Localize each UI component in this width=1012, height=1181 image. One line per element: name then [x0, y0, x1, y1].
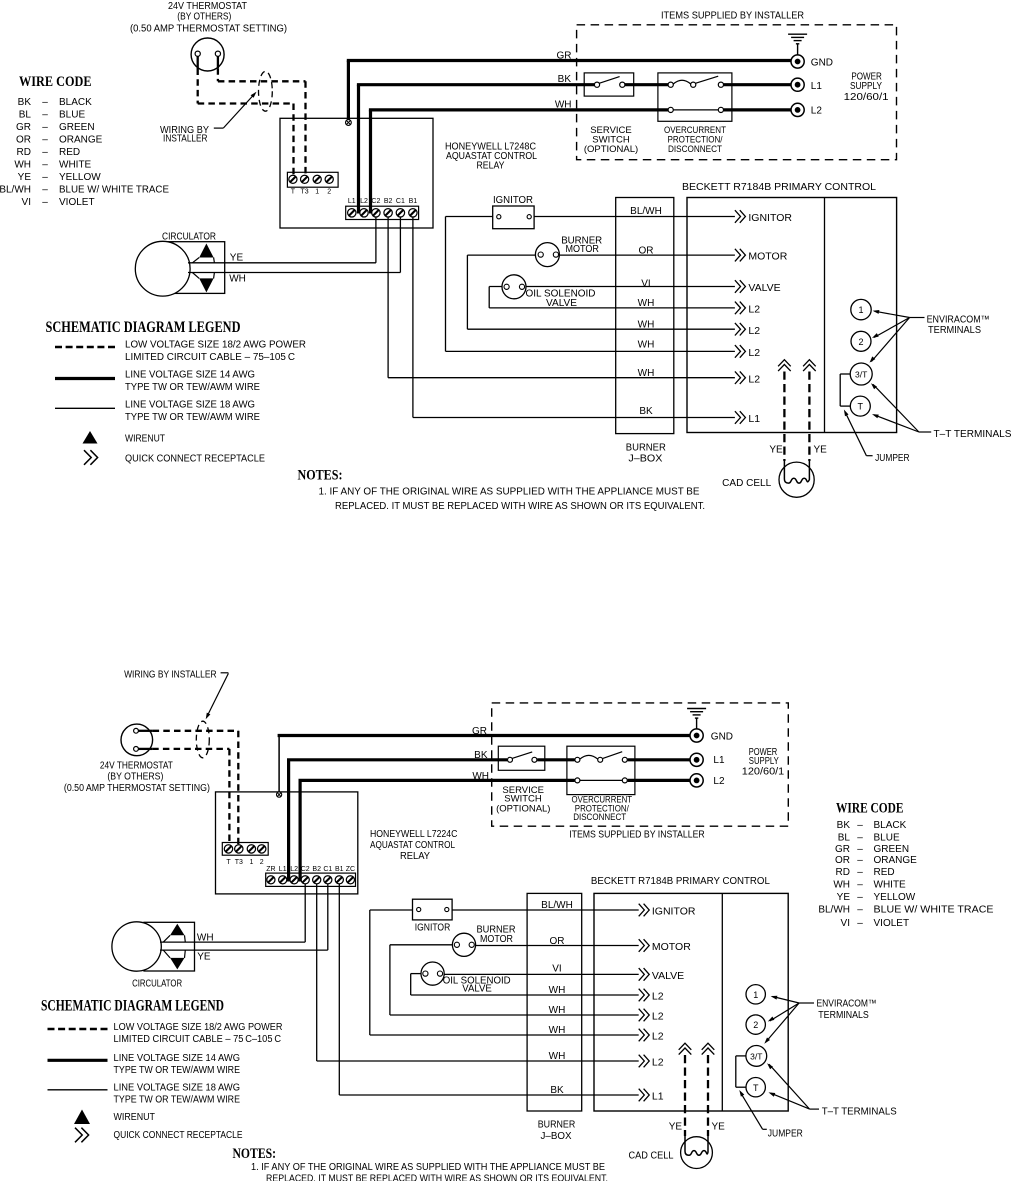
- svg-text:LINE VOLTAGE SIZE 18 AWG: LINE VOLTAGE SIZE 18 AWG: [114, 1082, 241, 1093]
- wire YE circulator to C2 (top): [188, 262, 376, 264]
- svg-text:–: –: [857, 820, 863, 831]
- terminal strip ZR..ZC (bottom): [266, 873, 356, 886]
- svg-text:2: 2: [260, 859, 264, 866]
- legend thick line sample (top): [55, 377, 115, 380]
- svg-text:RED: RED: [59, 147, 80, 158]
- svg-text:L1: L1: [279, 866, 287, 873]
- svg-text:1: 1: [858, 305, 863, 315]
- wire motor left to L2 receptacle (bottom): [390, 944, 457, 946]
- svg-text:ORANGE: ORANGE: [59, 135, 103, 146]
- wire C2 to circulator YE (top): [375, 217, 377, 263]
- aquastat relay box U1 (top): [280, 118, 433, 228]
- screw terminal 1 (top): [313, 175, 321, 183]
- svg-text:GND: GND: [711, 731, 733, 742]
- svg-text:JUMPER: JUMPER: [768, 1128, 803, 1139]
- svg-text:–: –: [857, 867, 863, 878]
- burner motor M1 (top): [535, 243, 559, 267]
- svg-text:YE: YE: [837, 892, 851, 903]
- svg-text:MOTOR: MOTOR: [480, 934, 513, 945]
- svg-text:VI: VI: [841, 918, 850, 929]
- wire GR ground (bottom): [278, 736, 280, 792]
- svg-text:BLACK: BLACK: [874, 820, 907, 831]
- svg-text:L2: L2: [713, 776, 725, 787]
- cad cell dashed wire YE left (bottom): [684, 1055, 686, 1136]
- quick-connect receptacle L2#5 (bottom): [639, 1009, 650, 1022]
- svg-text:GR: GR: [472, 726, 487, 737]
- svg-text:IGNITOR: IGNITOR: [493, 195, 533, 206]
- cable loop symbol (top): [259, 71, 273, 111]
- quick-connect receptacle L2#4 (top): [735, 302, 746, 315]
- jumper bracket (top): [840, 373, 850, 375]
- wire thermostat-T3 (dashed, top): [217, 56, 219, 68]
- terminal strip T T3 1 2 (top): [287, 172, 338, 187]
- legend thin line sample (bottom): [48, 1089, 108, 1091]
- circulator junction box (top): [160, 242, 225, 294]
- svg-text:MOTOR: MOTOR: [748, 251, 787, 263]
- cad cell dashed wire YE right (bottom): [707, 1055, 709, 1136]
- leader line to jumper (bottom): [763, 1128, 767, 1130]
- svg-text:QUICK CONNECT RECEPTACLE: QUICK CONNECT RECEPTACLE: [125, 453, 265, 464]
- wire B1 to L1 receptacle (top): [412, 217, 414, 418]
- svg-text:WIRING BY INSTALLER: WIRING BY INSTALLER: [124, 669, 217, 680]
- svg-text:ITEMS SUPPLIED BY INSTALLER: ITEMS SUPPLIED BY INSTALLER: [661, 11, 804, 22]
- overcurrent protection/disconnect CB2 (bottom): [567, 746, 635, 794]
- svg-text:LIMITED CIRCUIT CABLE – 75–105: LIMITED CIRCUIT CABLE – 75–105 C: [125, 352, 295, 363]
- svg-text:2: 2: [327, 188, 331, 195]
- svg-text:YELLOW: YELLOW: [874, 892, 916, 903]
- wirenut lower (bottom): [170, 958, 184, 970]
- svg-text:ZC: ZC: [346, 866, 355, 873]
- wire B2 to L2 receptacle (bottom): [316, 884, 318, 1061]
- svg-text:WH: WH: [197, 932, 214, 943]
- terminal T (bottom): [746, 1078, 765, 1097]
- svg-text:BL/WH: BL/WH: [818, 905, 850, 916]
- beckett internal divider (top): [824, 198, 826, 433]
- burner motor M2 (bottom): [452, 933, 475, 956]
- svg-text:–: –: [42, 135, 48, 146]
- quick-connect receptacle IGNITOR#1 (top): [735, 210, 746, 223]
- wire WH line-voltage L2 (top): [369, 110, 372, 214]
- svg-text:SUPPLY: SUPPLY: [850, 81, 882, 92]
- wire WH line-voltage L2 (bottom): [299, 780, 302, 881]
- svg-text:L1: L1: [713, 755, 725, 766]
- svg-text:MOTOR: MOTOR: [652, 941, 691, 953]
- svg-text:RELAY: RELAY: [400, 851, 430, 862]
- terminal GND (bottom): [690, 729, 733, 742]
- wire ignitor left to L2 receptacle (top): [446, 216, 499, 218]
- svg-text:C2: C2: [371, 198, 380, 205]
- wire YE circulator to C1 (bottom): [160, 949, 328, 951]
- aquastat relay box U3 (bottom): [216, 792, 358, 894]
- svg-text:(0.50 AMP THERMOSTAT SETTING): (0.50 AMP THERMOSTAT SETTING): [130, 24, 287, 35]
- svg-text:2: 2: [858, 337, 863, 347]
- svg-text:RED: RED: [874, 867, 895, 878]
- svg-text:(BY OTHERS): (BY OTHERS): [107, 772, 163, 783]
- svg-text:120/60/1: 120/60/1: [844, 92, 889, 103]
- svg-text:GREEN: GREEN: [874, 844, 910, 855]
- svg-text:VI: VI: [552, 963, 561, 974]
- quick-connect receptacle L2#7 (bottom): [639, 1055, 650, 1068]
- svg-text:BLUE: BLUE: [874, 833, 900, 844]
- svg-text:B1: B1: [409, 198, 418, 205]
- wire thermostat-T (dashed, top): [197, 56, 199, 68]
- svg-text:–: –: [42, 110, 48, 121]
- svg-text:BL/WH: BL/WH: [630, 206, 662, 217]
- thermostat TH1 terminal 2: [215, 51, 220, 56]
- wire ignitor left to L2 receptacle (bottom): [370, 909, 419, 911]
- svg-text:TYPE TW OR TEW/AWM WIRE: TYPE TW OR TEW/AWM WIRE: [125, 412, 260, 423]
- svg-text:TERMINALS: TERMINALS: [818, 1010, 869, 1021]
- svg-text:YE: YE: [814, 445, 828, 456]
- svg-text:WH: WH: [833, 880, 850, 891]
- burner j-box column (bottom): [527, 893, 582, 1111]
- overcurrent protection/disconnect CB1 (top): [658, 73, 732, 121]
- svg-text:1: 1: [249, 859, 253, 866]
- svg-text:L2: L2: [652, 1031, 664, 1043]
- legend dashed line sample (bottom): [48, 1028, 108, 1030]
- svg-text:YE: YE: [669, 1122, 683, 1133]
- svg-text:–: –: [857, 905, 863, 916]
- svg-text:–: –: [42, 147, 48, 158]
- svg-text:OR: OR: [835, 855, 850, 866]
- quick-connect receptacle L1#8 (top): [735, 411, 746, 424]
- svg-text:(OPTIONAL): (OPTIONAL): [584, 144, 638, 155]
- svg-text:T: T: [226, 859, 231, 866]
- oil solenoid valve V1 (top): [502, 275, 526, 299]
- quick-connect receptacle L2#4 (bottom): [639, 989, 650, 1002]
- svg-text:VIOLET: VIOLET: [59, 197, 95, 208]
- wire B1 to L1 receptacle (bottom): [338, 884, 340, 1095]
- legend thin line sample (top): [55, 407, 115, 409]
- svg-text:BLUE W/ WHITE TRACE: BLUE W/ WHITE TRACE: [59, 185, 169, 196]
- legend thick line sample (bottom): [48, 1059, 108, 1062]
- terminal GND (top): [791, 55, 833, 69]
- svg-text:BLACK: BLACK: [59, 97, 92, 108]
- svg-text:L2: L2: [748, 373, 760, 385]
- screw terminal 2 (bottom): [258, 845, 266, 853]
- leader line to jumper (top): [866, 455, 872, 457]
- svg-text:CAD CELL: CAD CELL: [722, 478, 771, 489]
- ignitor transformer box (top): [493, 206, 534, 229]
- svg-text:C2: C2: [301, 866, 310, 873]
- wire WH circulator to C1 (top): [188, 272, 400, 274]
- svg-text:CAD CELL: CAD CELL: [629, 1151, 674, 1162]
- svg-text:T–T TERMINALS: T–T TERMINALS: [822, 1106, 897, 1117]
- wire valve right to VALVE receptacle (top): [522, 286, 735, 288]
- svg-text:120/60/1: 120/60/1: [742, 767, 785, 778]
- svg-text:24V THERMOSTAT: 24V THERMOSTAT: [100, 761, 173, 772]
- quick-connect receptacle L2#6 (bottom): [639, 1029, 650, 1042]
- service switch SW2 (bottom): [498, 746, 545, 770]
- svg-text:OR: OR: [16, 135, 31, 146]
- cad cell photocell PC1 (top): [779, 462, 814, 497]
- svg-text:(0.50 AMP THERMOSTAT SETTING): (0.50 AMP THERMOSTAT SETTING): [64, 783, 210, 794]
- svg-text:REPLACED. IT MUST BE REPLACED: REPLACED. IT MUST BE REPLACED WITH WIRE …: [335, 501, 705, 512]
- svg-text:WHITE: WHITE: [59, 160, 92, 171]
- svg-text:BK: BK: [18, 97, 32, 108]
- svg-text:IGNITOR: IGNITOR: [415, 923, 451, 934]
- terminal 3/T (bottom): [746, 1046, 767, 1067]
- enviracom terminal 1 (top): [851, 299, 871, 319]
- svg-text:RD: RD: [836, 867, 850, 878]
- ground symbol (bottom): [687, 709, 706, 730]
- svg-text:GR: GR: [835, 844, 850, 855]
- svg-text:GR: GR: [16, 122, 31, 133]
- svg-text:L2: L2: [652, 991, 664, 1003]
- svg-text:NOTES:: NOTES:: [233, 1146, 277, 1162]
- thermostat TH2 terminal 1: [134, 728, 139, 733]
- svg-text:GND: GND: [811, 58, 833, 69]
- svg-text:YE: YE: [197, 952, 211, 963]
- svg-text:SUPPLY: SUPPLY: [749, 756, 779, 767]
- svg-text:24V THERMOSTAT: 24V THERMOSTAT: [168, 1, 247, 12]
- svg-text:(OPTIONAL): (OPTIONAL): [496, 803, 550, 814]
- cable loop symbol (bottom): [196, 721, 209, 758]
- wirenut upper (bottom): [170, 924, 184, 936]
- circulator junction box (bottom): [144, 922, 195, 971]
- svg-text:–: –: [857, 855, 863, 866]
- svg-text:C1: C1: [396, 198, 405, 205]
- svg-text:LOW VOLTAGE SIZE 18/2 AWG POWE: LOW VOLTAGE SIZE 18/2 AWG POWER: [114, 1022, 283, 1033]
- terminal 3/T (top): [850, 363, 872, 385]
- wirenut upper (top): [199, 244, 213, 258]
- svg-text:VALVE: VALVE: [748, 282, 780, 294]
- wire BK line-voltage L1 (bottom): [287, 760, 290, 882]
- ground symbol (top): [788, 34, 807, 55]
- svg-text:ENVIRACOM™: ENVIRACOM™: [927, 314, 990, 325]
- legend quick connect symbol (bottom): [75, 1128, 89, 1143]
- svg-text:YE: YE: [18, 172, 32, 183]
- terminal L2 (bottom): [690, 774, 725, 787]
- svg-text:YE: YE: [230, 253, 244, 264]
- svg-text:LINE VOLTAGE SIZE 18 AWG: LINE VOLTAGE SIZE 18 AWG: [125, 400, 255, 411]
- svg-text:L2: L2: [652, 1057, 664, 1069]
- svg-text:L1: L1: [748, 413, 760, 425]
- svg-text:–: –: [42, 97, 48, 108]
- svg-text:–: –: [857, 844, 863, 855]
- svg-text:ORANGE: ORANGE: [874, 855, 918, 866]
- svg-text:VI: VI: [641, 279, 650, 290]
- wire C1 to circulator WH (top): [399, 217, 401, 273]
- wire ignitor right to IGNITOR receptacle (bottom): [447, 909, 639, 911]
- wire thermostat-T (dashed, bottom): [138, 748, 152, 750]
- svg-text:WH: WH: [229, 274, 246, 285]
- circulator pump P1 (top): [135, 241, 190, 296]
- burner j-box column (top): [616, 198, 674, 434]
- wire motor right to MOTOR receptacle (top): [556, 254, 735, 256]
- quick-connect receptacle L1#8 (bottom): [639, 1089, 650, 1102]
- svg-text:L2: L2: [748, 325, 760, 337]
- quick-connect receptacle VALVE#3 (bottom): [639, 968, 650, 981]
- leader arrow to cable loop (bottom): [221, 672, 229, 674]
- svg-text:JUMPER: JUMPER: [875, 453, 910, 464]
- svg-text:HONEYWELL L7224C: HONEYWELL L7224C: [370, 829, 458, 840]
- screw terminal T (top): [289, 175, 297, 183]
- wire C2 to circulator WH (bottom): [304, 884, 306, 942]
- svg-text:1. IF ANY OF THE ORIGINAL WIRE: 1. IF ANY OF THE ORIGINAL WIRE AS SUPPLI…: [319, 486, 700, 497]
- wire motor left to L2 receptacle (top): [467, 254, 540, 256]
- svg-text:B1: B1: [335, 866, 344, 873]
- wire BK line-voltage L1 (top): [357, 85, 360, 214]
- svg-text:GR: GR: [557, 51, 572, 62]
- terminal T (top): [850, 396, 870, 416]
- svg-text:WH: WH: [555, 100, 572, 111]
- svg-text:WIRENUT: WIRENUT: [125, 434, 165, 445]
- items-supplied-by-installer dashed box (bottom): [492, 703, 789, 826]
- screw terminal T3 (bottom): [235, 845, 243, 853]
- svg-text:BK: BK: [474, 750, 488, 761]
- svg-text:BK: BK: [639, 406, 653, 417]
- leader lines to T-T terminals (bottom): [810, 1108, 819, 1110]
- service switch SW1 (top): [584, 73, 634, 96]
- oil solenoid valve V2 (bottom): [421, 962, 444, 985]
- svg-text:DISCONNECT: DISCONNECT: [668, 144, 722, 155]
- quick-connect receptacle L2#7 (top): [735, 371, 746, 384]
- quick-connect receptacle MOTOR#2 (top): [735, 249, 746, 262]
- svg-text:BK: BK: [837, 820, 851, 831]
- svg-text:BL: BL: [19, 110, 32, 121]
- svg-text:2: 2: [753, 1020, 758, 1030]
- beckett internal divider (bottom): [721, 893, 723, 1111]
- svg-text:T–T TERMINALS: T–T TERMINALS: [934, 429, 1012, 440]
- svg-text:BLUE: BLUE: [59, 110, 85, 121]
- svg-text:IGNITOR: IGNITOR: [748, 212, 792, 224]
- svg-text:WHITE: WHITE: [874, 880, 907, 891]
- svg-text:SCHEMATIC DIAGRAM LEGEND: SCHEMATIC DIAGRAM LEGEND: [46, 319, 241, 336]
- wire valve left to L2 receptacle (top): [489, 286, 506, 288]
- svg-text:NOTES:: NOTES:: [298, 468, 343, 484]
- svg-text:BL/WH: BL/WH: [0, 185, 31, 196]
- svg-text:L2: L2: [290, 866, 298, 873]
- svg-text:IGNITOR: IGNITOR: [652, 906, 696, 918]
- svg-text:L2: L2: [748, 347, 760, 359]
- terminal L1 (bottom): [690, 753, 725, 766]
- svg-text:3/T: 3/T: [855, 369, 867, 379]
- svg-text:LINE VOLTAGE SIZE 14 AWG: LINE VOLTAGE SIZE 14 AWG: [114, 1053, 241, 1064]
- svg-text:LOW VOLTAGE SIZE 18/2 AWG POWE: LOW VOLTAGE SIZE 18/2 AWG POWER: [125, 340, 306, 351]
- svg-text:QUICK CONNECT RECEPTACLE: QUICK CONNECT RECEPTACLE: [114, 1130, 243, 1141]
- svg-text:T: T: [858, 402, 864, 412]
- svg-text:YE: YE: [712, 1122, 726, 1133]
- svg-text:LINE VOLTAGE SIZE 14 AWG: LINE VOLTAGE SIZE 14 AWG: [125, 370, 255, 381]
- cad cell dashed wire YE left (top): [783, 372, 785, 462]
- screw terminal T (bottom): [224, 845, 232, 853]
- wire C1 to circulator YE (bottom): [327, 884, 329, 950]
- svg-text:REPLACED. IT MUST BE REPLACED: REPLACED. IT MUST BE REPLACED WITH WIRE …: [266, 1173, 608, 1181]
- svg-text:3/T: 3/T: [750, 1051, 762, 1061]
- thermostat TH2 (bottom): [121, 724, 153, 756]
- svg-text:VALVE: VALVE: [652, 970, 684, 982]
- quick-connect receptacle VALVE#3 (top): [735, 280, 746, 293]
- svg-text:L1: L1: [348, 198, 356, 205]
- legend wirenut symbol (top): [83, 431, 98, 444]
- svg-text:BK: BK: [558, 74, 572, 85]
- svg-text:BURNER: BURNER: [626, 443, 666, 454]
- thermostat TH1 (top): [191, 38, 224, 71]
- wire valve left to L2 receptacle (bottom): [411, 973, 426, 975]
- svg-text:T: T: [291, 188, 296, 195]
- svg-text:J–BOX: J–BOX: [541, 1131, 572, 1142]
- svg-text:GREEN: GREEN: [59, 122, 95, 133]
- svg-text:1: 1: [753, 990, 758, 1000]
- svg-text:TYPE TW OR TEW/AWM WIRE: TYPE TW OR TEW/AWM WIRE: [114, 1065, 241, 1076]
- wirenut lower (top): [199, 278, 213, 292]
- leader lines to enviracom terminals (top): [910, 317, 925, 319]
- wire thermostat-T3 (dashed, bottom): [138, 730, 152, 732]
- svg-text:–: –: [42, 122, 48, 133]
- quick-connect receptacle MOTOR#2 (bottom): [639, 939, 650, 952]
- svg-text:YE: YE: [769, 445, 783, 456]
- svg-text:WH: WH: [14, 160, 31, 171]
- svg-text:ZR: ZR: [266, 866, 275, 873]
- svg-text:VIOLET: VIOLET: [874, 918, 910, 929]
- svg-text:–: –: [857, 892, 863, 903]
- svg-text:L2: L2: [652, 1011, 664, 1023]
- svg-text:–: –: [42, 185, 48, 196]
- svg-text:VI: VI: [22, 197, 31, 208]
- terminal strip L1 L2 C2 B2 C1 B1 (top): [346, 206, 419, 219]
- ignitor transformer box (bottom): [413, 899, 453, 920]
- wire B2 to L2 receptacle (top): [387, 217, 389, 378]
- svg-text:CIRCULATOR: CIRCULATOR: [132, 979, 182, 990]
- quick-connect receptacle IGNITOR#1 (bottom): [639, 904, 650, 917]
- svg-text:J–BOX: J–BOX: [628, 454, 662, 465]
- svg-text:LIMITED CIRCUIT CABLE – 75 C–1: LIMITED CIRCUIT CABLE – 75 C–105 C: [114, 1034, 282, 1045]
- svg-text:TERMINALS: TERMINALS: [928, 325, 981, 336]
- terminal L2 (top): [791, 103, 822, 116]
- svg-text:B2: B2: [312, 866, 321, 873]
- svg-text:AQUASTAT CONTROL: AQUASTAT CONTROL: [370, 840, 455, 851]
- jumper bracket (bottom): [736, 1055, 746, 1057]
- screw terminal T3 (top): [301, 175, 309, 183]
- screw terminal 2 (top): [325, 175, 333, 183]
- svg-text:SCHEMATIC DIAGRAM LEGEND: SCHEMATIC DIAGRAM LEGEND: [41, 998, 224, 1015]
- svg-text:ENVIRACOM™: ENVIRACOM™: [817, 999, 877, 1010]
- svg-text:BL: BL: [838, 833, 851, 844]
- leader lines to T-T terminals (top): [919, 431, 931, 433]
- svg-text:INSTALLER: INSTALLER: [163, 134, 208, 145]
- svg-text:L1: L1: [652, 1091, 664, 1103]
- svg-text:CIRCULATOR: CIRCULATOR: [162, 231, 216, 242]
- svg-text:TYPE TW OR TEW/AWM WIRE: TYPE TW OR TEW/AWM WIRE: [114, 1094, 241, 1105]
- svg-text:TYPE TW OR TEW/AWM WIRE: TYPE TW OR TEW/AWM WIRE: [125, 382, 260, 393]
- svg-text:WH: WH: [472, 771, 489, 782]
- beckett primary control box U4 (bottom): [594, 893, 788, 1111]
- svg-text:C1: C1: [323, 866, 332, 873]
- svg-text:BECKETT R7184B PRIMARY CONTROL: BECKETT R7184B PRIMARY CONTROL: [682, 182, 876, 193]
- svg-text:BECKETT R7184B PRIMARY CONTROL: BECKETT R7184B PRIMARY CONTROL: [591, 876, 770, 887]
- items-supplied-by-installer dashed box (top): [577, 25, 897, 160]
- svg-text:L2: L2: [748, 304, 760, 316]
- svg-text:WIRENUT: WIRENUT: [114, 1112, 156, 1123]
- enviracom terminal 2 (bottom): [746, 1015, 765, 1034]
- svg-text:L2: L2: [360, 198, 368, 205]
- svg-text:MOTOR: MOTOR: [565, 244, 599, 255]
- screw terminal 1 (bottom): [247, 845, 255, 853]
- svg-text:T: T: [753, 1083, 759, 1093]
- svg-text:B2: B2: [384, 198, 393, 205]
- legend dashed line sample (top): [55, 346, 115, 348]
- svg-text:(BY OTHERS): (BY OTHERS): [177, 12, 231, 23]
- svg-text:ITEMS SUPPLIED BY INSTALLER: ITEMS SUPPLIED BY INSTALLER: [569, 829, 705, 840]
- svg-text:RD: RD: [17, 147, 31, 158]
- svg-text:–: –: [857, 918, 863, 929]
- wire valve right to VALVE receptacle (bottom): [440, 973, 639, 975]
- svg-text:–: –: [857, 833, 863, 844]
- wire WH circulator to C2 (bottom): [160, 941, 305, 943]
- svg-text:BURNER: BURNER: [538, 1119, 576, 1130]
- leader lines to enviracom terminals (bottom): [799, 1002, 814, 1004]
